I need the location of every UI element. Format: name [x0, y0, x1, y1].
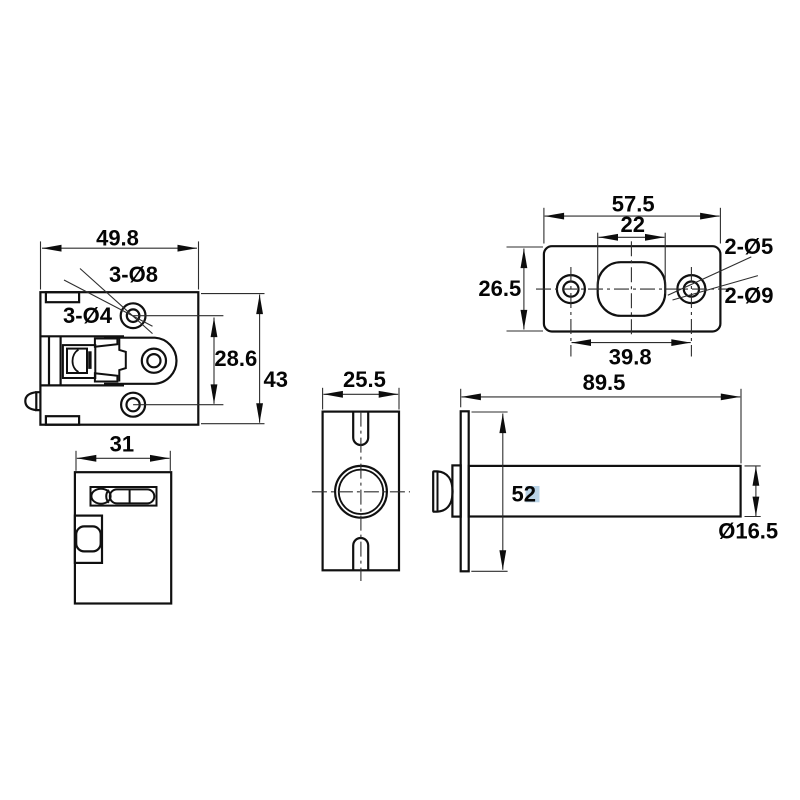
dim 89.5 line [461, 396, 740, 398]
dim 89.5 extension left [460, 389, 462, 408]
lock body outline [40, 292, 198, 425]
dim 31 line [77, 457, 170, 459]
extension line top hole [133, 315, 223, 317]
dim 49.8 extension right [198, 241, 200, 289]
dim O16.5 tick bottom [745, 516, 761, 518]
dim 25.5 line [323, 393, 398, 395]
svg-text:43: 43 [264, 367, 288, 392]
collar [452, 465, 460, 516]
svg-text:52: 52 [512, 481, 536, 506]
keeper housing rect [75, 516, 102, 563]
strike plate outline [544, 246, 721, 331]
strike hole left outer [557, 275, 585, 303]
slider pill body [110, 489, 155, 503]
svg-text:26.5: 26.5 [478, 276, 521, 301]
left hole centerline [570, 267, 572, 357]
svg-text:49.8: 49.8 [96, 225, 139, 250]
spring arc [73, 350, 79, 372]
dim 52 extension top [472, 411, 508, 413]
knob flat face [433, 471, 437, 511]
barrel hole inner [339, 470, 383, 514]
text selection highlight on 52 [526, 486, 540, 502]
dim 22 extension right [664, 233, 666, 294]
slider knob ellipse [91, 489, 110, 504]
knob face inner line [437, 471, 439, 511]
svg-text:2-Ø5: 2-Ø5 [724, 234, 773, 259]
claw front edge [119, 339, 126, 382]
dim 22 extension left [597, 233, 599, 290]
leader line to 3-O4 [64, 280, 153, 326]
svg-text:39.8: 39.8 [609, 344, 652, 369]
pusher plate (bold bar) [88, 351, 91, 369]
channel partition line 1 [48, 336, 50, 385]
clip bottom arm [95, 373, 118, 381]
svg-text:22: 22 [621, 212, 645, 237]
leader line to 2-O9 [673, 276, 758, 300]
slider crescent arc [106, 490, 109, 503]
screw hole top outer [121, 303, 146, 328]
dim 52 line [502, 414, 504, 570]
plate horizontal centerline [536, 288, 732, 290]
dim 49.8 extension left [40, 241, 42, 289]
oval centerline [630, 241, 632, 337]
svg-text:89.5: 89.5 [583, 370, 626, 395]
svg-text:3-Ø8: 3-Ø8 [109, 262, 158, 287]
plate vertical centerline [360, 412, 362, 581]
bottom screw slot [353, 538, 368, 570]
dim 57.5 extension left [543, 208, 545, 244]
dim 26.5 extension top [507, 246, 544, 248]
leader line to 3-O8 [80, 269, 153, 334]
dim 22 line [599, 236, 665, 238]
dim 31 extension right [169, 451, 171, 471]
channel partition line 2 [59, 336, 61, 385]
dim 89.5 extension right [740, 389, 742, 464]
barrel hole outer [335, 466, 387, 518]
slide slot frame [91, 487, 157, 506]
mounting plate outline [323, 412, 399, 571]
strike hole right inner [684, 282, 699, 297]
dim 43 extension top [201, 293, 265, 295]
dim 25.5 extension right [398, 388, 400, 410]
dim 43 extension bottom [201, 423, 265, 425]
leader line to 2-O5 [668, 257, 752, 295]
dim O16.5 tick top [745, 465, 761, 467]
strike hole left inner [563, 282, 578, 297]
flange plate [461, 411, 469, 571]
bolt barrel [469, 466, 741, 517]
side pin block [36, 392, 40, 410]
dim 25.5 extension left [322, 388, 324, 410]
screw hole top inner [127, 309, 140, 322]
strike hole right outer [677, 275, 705, 303]
clip top arm [95, 339, 118, 347]
screw hole bottom inner [127, 398, 140, 411]
dim 39.8 line [572, 342, 691, 344]
dim 49.8 line [42, 247, 197, 249]
front body outline [75, 472, 171, 603]
dim 43 line [259, 295, 261, 423]
svg-text:3-Ø4: 3-Ø4 [63, 303, 113, 328]
svg-text:28.6: 28.6 [214, 346, 257, 371]
bolt channel top line [40, 335, 124, 337]
top screw slot [353, 412, 368, 445]
svg-text:Ø16.5: Ø16.5 [718, 518, 778, 543]
bottom mounting notch [46, 416, 79, 425]
knob dome [438, 471, 453, 511]
dim 26.5 extension bottom [507, 330, 544, 332]
dim 57.5 line [545, 215, 720, 217]
keeper rounded square [76, 526, 101, 551]
bolt channel bottom line [40, 384, 124, 386]
side pin dome [25, 392, 36, 410]
bolt oval opening [598, 262, 666, 316]
dim O16.5 line [755, 466, 757, 516]
pivot hole middle inner [147, 354, 160, 367]
dim 28.6 line [213, 318, 215, 404]
plate horizontal centerline [312, 491, 410, 493]
dim 52 extension bottom [471, 570, 507, 572]
spring seat inner rect [67, 349, 87, 373]
svg-text:31: 31 [110, 432, 134, 457]
pivot hole middle outer [142, 349, 166, 373]
dim 26.5 line [523, 249, 525, 330]
extension line bottom hole [133, 404, 223, 406]
svg-text:2-Ø9: 2-Ø9 [725, 283, 774, 308]
bolt tongue outline [104, 338, 176, 384]
top mounting notch [46, 292, 79, 302]
svg-text:25.5: 25.5 [343, 367, 386, 392]
slider divider line [129, 489, 131, 503]
spring housing box [63, 345, 95, 378]
screw hole bottom outer [121, 393, 145, 417]
dim 57.5 extension right [719, 208, 721, 244]
dim 31 extension left [75, 451, 77, 471]
right hole centerline [690, 267, 692, 357]
